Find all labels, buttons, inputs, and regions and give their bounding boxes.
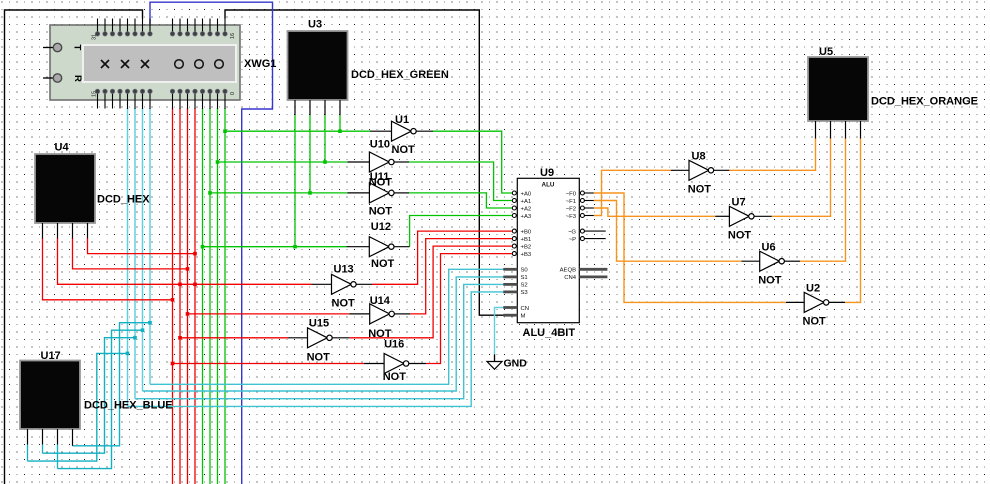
svg-text:DCD_HEX_GREEN: DCD_HEX_GREEN [351, 69, 449, 81]
wire: green U3 pin stubs down to rows [294, 115, 296, 247]
svg-text:S2: S2 [521, 283, 528, 289]
not-gate U12 [347, 237, 410, 257]
wire: red U15 output to ALU B2 [349, 246, 511, 338]
wire: U4 red pin 3 to bus [73, 238, 188, 269]
svg-text:~F0: ~F0 [566, 191, 577, 197]
ALU right thick pins AEQB CN4 [579, 269, 607, 277]
svg-text:U1: U1 [395, 114, 409, 126]
display U4 DCD_HEX [35, 154, 95, 239]
wire: cyan branch to U17 pin 2 [43, 338, 136, 454]
not-gate U8 [671, 160, 730, 180]
svg-text:U3: U3 [308, 19, 322, 31]
svg-text:+B0: +B0 [521, 229, 532, 235]
svg-text:~F2: ~F2 [566, 206, 576, 212]
wire: green row to U10 input [218, 161, 348, 163]
wire: green vertical bus from XWG1 bottom pins [202, 108, 204, 484]
wire: black from XWG1 top pin 16 right to ALU M pin [225, 10, 504, 315]
wire: blue net from XWG1 top pin 8 around to bottom [150, 2, 273, 484]
wire: green U10 output to ALU A1 [409, 162, 512, 201]
wire: orange ALU F0 to U2 input [594, 193, 786, 302]
wire: red U16 output to ALU B3 [426, 254, 512, 364]
svg-text:+B3: +B3 [521, 252, 532, 258]
svg-text:NOT: NOT [688, 184, 712, 196]
svg-text:U16: U16 [384, 339, 404, 351]
XWG1 bottom pin stubs [98, 94, 226, 110]
wire: green U12 output to ALU A3 [410, 216, 512, 247]
ALU left pin stubs A and B with circles [512, 191, 517, 256]
svg-text:NOT: NOT [728, 230, 752, 242]
wire: cyan from ALU CN pin down to ground [495, 308, 504, 355]
svg-text:~P: ~P [569, 237, 576, 243]
svg-text:U13: U13 [334, 264, 354, 276]
svg-text:GND: GND [504, 358, 528, 370]
wire: green U1 output to ALU A0 [433, 131, 512, 193]
XWG1 bottom pin circles [95, 89, 227, 93]
XWG1 word generator body [50, 25, 240, 100]
svg-text:S1: S1 [521, 275, 528, 281]
not-gate U1 [370, 121, 433, 141]
svg-text:U12: U12 [371, 221, 391, 233]
wire: U4 red pin 2 to bus and U13 input [58, 238, 312, 284]
display U17 DCD_HEX_BLUE [20, 361, 80, 469]
wire: cyan S2 net to ALU [135, 284, 504, 398]
svg-text:~G: ~G [568, 229, 576, 235]
XWG1 X pattern symbols [101, 60, 149, 68]
svg-text:NOT: NOT [307, 352, 331, 364]
wire: cyan branch to U17 pin 4 [73, 323, 151, 446]
wire: red U13 output to ALU B0 [372, 231, 512, 284]
wire: orange ALU F2 to U7 input [594, 208, 716, 216]
svg-text:+A2: +A2 [521, 206, 532, 212]
wire: green row to U12 input [203, 246, 347, 248]
svg-text:U11: U11 [370, 171, 390, 183]
XWG1 T terminal [43, 47, 54, 49]
wire: cyan S1 net to ALU [143, 277, 504, 391]
svg-text:+B2: +B2 [521, 244, 532, 250]
svg-text:XWG1: XWG1 [244, 58, 276, 70]
ground [487, 354, 527, 369]
svg-text:U15: U15 [309, 318, 329, 330]
wire: red branch to U16 input [173, 363, 365, 365]
not-gate U6 [742, 251, 801, 271]
wire: cyan S3 net to ALU [128, 292, 504, 407]
svg-text:NOT: NOT [369, 206, 393, 218]
svg-text:U2: U2 [806, 283, 820, 295]
wire: orange U7 output to U5 pin 2 [772, 138, 831, 216]
not-gate U15 [288, 328, 349, 348]
wire: orange U6 output to U5 pin 3 [800, 138, 846, 261]
svg-text:U8: U8 [692, 151, 706, 163]
wire: orange U8 output to U5 pin 1 [729, 138, 815, 170]
wire: red vertical bus from XWG1 bottom pins [172, 108, 174, 484]
svg-text:CN: CN [521, 306, 530, 312]
svg-text:R: R [72, 75, 83, 82]
not-gate U10 [348, 152, 410, 172]
junction dots [201, 129, 342, 248]
svg-text:U4: U4 [55, 142, 70, 154]
not-gate U13 [312, 274, 373, 294]
ALU right pin stubs F G P with circles [580, 191, 605, 241]
svg-text:~F3: ~F3 [566, 214, 577, 220]
not-gate U11 [348, 183, 410, 203]
wire: green row to U1 input [225, 130, 370, 132]
svg-text:16: 16 [230, 33, 236, 39]
XWG1 top pin circles [95, 32, 227, 36]
svg-text:AEQB: AEQB [560, 268, 576, 274]
not-gate U2 [786, 292, 845, 312]
ALU pin name labels [521, 191, 577, 319]
svg-text:DCD_HEX_ORANGE: DCD_HEX_ORANGE [871, 96, 978, 108]
wire: cyan branch to U17 pin 3 [58, 330, 143, 468]
wire: cyan branch to U17 pin 1 [28, 353, 128, 461]
XWG1 corner bit index labels [92, 33, 237, 97]
wire: cyan S0 net to ALU [150, 269, 504, 384]
not-gate U16 [364, 354, 426, 374]
svg-text:NOT: NOT [803, 316, 827, 328]
wire: orange ALU F3 to U8 input [594, 170, 671, 215]
svg-text:S3: S3 [521, 290, 529, 296]
svg-text:ALU_4BIT: ALU_4BIT [523, 327, 576, 339]
svg-text:NOT: NOT [332, 298, 356, 310]
svg-text:DCD_HEX_BLUE: DCD_HEX_BLUE [84, 400, 173, 412]
svg-text:~F1: ~F1 [566, 199, 576, 205]
svg-text:M: M [521, 314, 526, 320]
wire: U4 red pin 4 to bus [88, 238, 196, 254]
ALU left thick pins S0-S3 CN M [503, 269, 517, 315]
wire: orange ALU F1 to U6 input [594, 201, 742, 262]
op ALU_4BIT U9 body [517, 178, 579, 322]
wire: green row to U11 input [210, 192, 348, 194]
svg-text:+A0: +A0 [521, 191, 532, 197]
svg-text:+B1: +B1 [521, 237, 532, 243]
wire: orange U2 output to U5 pin 4 [845, 138, 861, 302]
svg-text:U7: U7 [732, 197, 746, 209]
wire: black loop from XWG1 top pin 7 left and down page edge [5, 10, 143, 484]
svg-text:U14: U14 [370, 295, 391, 307]
not-gate U14 [349, 304, 410, 324]
display U3 DCD_HEX_GREEN [288, 31, 348, 115]
wire: green U11 output to ALU A2 [409, 193, 512, 208]
svg-text:+A1: +A1 [521, 199, 532, 205]
XWG1 O pattern symbols [175, 60, 224, 69]
wire: cyan verticals from XWG1 bottom pins to S rows [127, 108, 129, 406]
svg-text:ALU: ALU [542, 182, 555, 189]
svg-text:U10: U10 [370, 139, 390, 151]
svg-text:S0: S0 [521, 268, 529, 274]
XWG1 R terminal [43, 77, 54, 79]
svg-text:NOT: NOT [371, 258, 395, 270]
svg-text:U17: U17 [41, 350, 61, 362]
svg-text:NOT: NOT [758, 275, 782, 287]
svg-text:+A3: +A3 [521, 214, 532, 220]
display U5 DCD_HEX_ORANGE [808, 57, 868, 139]
not-gate U7 [715, 206, 772, 226]
wire: red branch to U14 input [188, 313, 350, 315]
wire: red branch to U15 input [180, 337, 288, 339]
wire: U4 red pin 1 to bus [43, 238, 173, 300]
svg-text:CN4: CN4 [564, 275, 577, 281]
svg-text:T: T [72, 45, 83, 51]
wire: red U14 output to ALU B1 [410, 239, 512, 314]
svg-text:U5: U5 [819, 46, 833, 58]
svg-text:0: 0 [230, 92, 236, 95]
svg-text:NOT: NOT [383, 371, 407, 383]
svg-text:DCD_HEX: DCD_HEX [97, 194, 150, 206]
svg-text:U9: U9 [540, 167, 554, 179]
XWG1 top pin stubs [98, 19, 226, 32]
svg-text:NOT: NOT [392, 144, 416, 156]
svg-text:U6: U6 [762, 242, 776, 254]
